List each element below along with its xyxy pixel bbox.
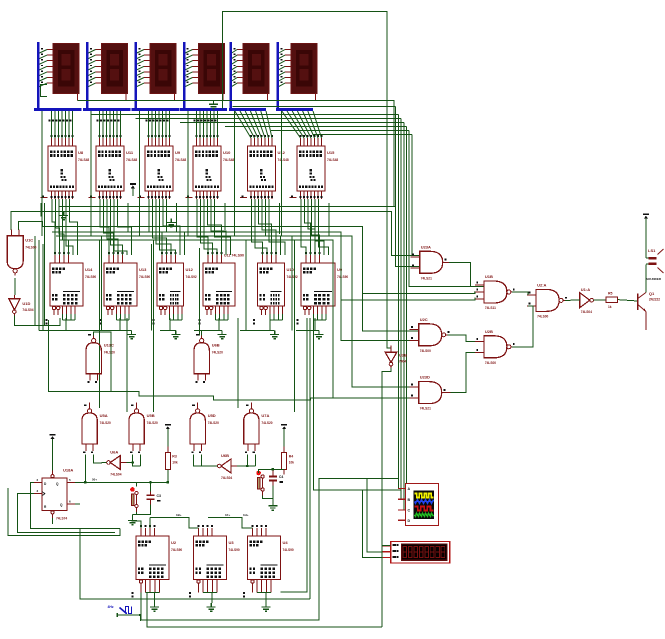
svg-text:U10: U10 [287,267,295,272]
svg-text:U2: U2 [171,540,177,545]
svg-text:74LS21: 74LS21 [420,407,431,411]
svg-text:A: A [408,487,411,491]
7-segment display DS1 [38,44,79,101]
ground (mid rail x=175.8) [171,331,180,339]
inverter U6A [101,450,126,477]
decoder IC U8 74LS48 [41,135,90,199]
nand gate U5D [190,402,219,453]
wire C3 bottom [137,504,151,514]
wires bus to decoder 4 [194,111,218,138]
svg-text:74LS00: 74LS00 [537,314,548,318]
svg-text:74LS74: 74LS74 [56,517,67,521]
bus for display DS6 [276,42,313,110]
svg-text:4Hz: 4Hz [108,605,114,609]
svg-text:74LS20: 74LS20 [147,421,158,425]
svg-text:U23A: U23A [421,244,431,249]
ground (bottom IC x=266) [262,603,271,611]
svg-text:U6B: U6B [221,453,229,458]
resistor R3 [165,447,178,475]
resistor R4 [282,447,295,475]
svg-text:R5: R5 [608,292,613,296]
nand gate U2B [475,329,516,365]
counter IC U13 74LS90 [100,252,151,324]
svg-text:U2B: U2B [399,352,407,357]
wire U18A preset to VCC [52,447,54,471]
transistor Q1 [638,265,660,331]
and gate U23D [410,375,451,411]
nand gate U2C [410,317,450,353]
svg-text:U9: U9 [175,150,181,155]
svg-text:74LS90: 74LS90 [171,548,182,552]
wires bottom rails [80,318,401,627]
decoder IC U11 74LS48 [89,135,138,199]
svg-text:U10: U10 [223,150,231,155]
svg-text:74LS20: 74LS20 [212,351,223,355]
svg-text:U13C: U13C [104,343,114,348]
ground (decoder 1) [59,212,68,220]
svg-text:D: D [408,519,411,523]
wires to LED matrix [363,368,391,627]
svg-text:74LS00: 74LS00 [25,246,36,250]
svg-text:74LS20: 74LS20 [208,421,219,425]
svg-text:U3: U3 [229,540,235,545]
wires decoders to counters [52,199,329,255]
wire top loop [223,11,391,352]
ground (button S2) [268,502,277,510]
wires mid rails [35,236,319,331]
svg-text:2N2222: 2N2222 [649,298,660,302]
wires U1C-U1D chain [14,278,60,326]
counter IC U12 74LS92 [153,252,197,324]
7-segment display DS6 [278,44,317,101]
decoder IC U12 74LS48 [240,135,289,199]
counter IC U10 74LS92 [253,252,298,324]
svg-text:74LS20: 74LS20 [104,351,115,355]
nand gate U5A [82,402,111,453]
svg-text:LS1: LS1 [648,248,656,253]
ground (mid rail x=319) [315,331,324,339]
svg-text:U23D: U23D [420,375,430,380]
svg-text:R4: R4 [289,455,294,459]
7-segment display DS5 [231,44,269,101]
power VCC (sounder) [643,214,649,229]
svg-text:U11 74LS90: U11 74LS90 [224,254,244,258]
bus for display DS2 [83,42,130,110]
svg-text:74LS90: 74LS90 [229,548,240,552]
svg-text:U6B: U6B [212,343,220,348]
wires R4 button C4 node [259,469,285,476]
wires lower nand inputs [84,454,274,616]
wires right gate interconnect [341,262,638,392]
flip-flop U18A [34,468,75,521]
wire C4 bottom [272,486,274,502]
wire display common cathodes [78,100,394,206]
ground (mid rail x=274.7) [270,331,279,339]
wire R3 to VCC [167,437,169,447]
svg-text:U5A: U5A [100,413,108,418]
wires decoder column verticals [41,111,329,236]
wires mid gate links [49,320,334,400]
bus for display DS5 [229,42,266,110]
nand gate U7A [244,402,273,453]
clock source (blue) [108,605,141,621]
inverter U1D [9,295,34,316]
nand gate U13C [86,332,115,383]
and gate U1B [475,274,516,310]
svg-text:U6A: U6A [110,450,118,455]
svg-text:R3: R3 [172,455,177,459]
svg-text:74LS90: 74LS90 [139,275,150,279]
svg-text:74LS04: 74LS04 [110,473,121,477]
svg-text:U11: U11 [126,150,134,155]
svg-text:1k: 1k [608,305,612,309]
svg-text:U4: U4 [283,540,289,545]
svg-text:1B+: 1B+ [176,513,182,517]
counter IC U3 74LS90 [189,525,240,597]
svg-text:B: B [408,498,411,502]
svg-text:U2B: U2B [485,329,493,334]
svg-text:74LS90: 74LS90 [283,548,294,552]
bus for display DS4 [180,42,228,110]
svg-text:U1C: U1C [25,238,33,243]
svg-text:74LS04: 74LS04 [221,476,232,480]
svg-text:74LS90: 74LS90 [85,275,96,279]
nand gate U13B [194,332,223,383]
button S2 [256,471,264,496]
svg-text:74LS20: 74LS20 [100,421,111,425]
svg-text:U7A: U7A [261,413,269,418]
svg-text:U1D: U1D [22,301,30,306]
7-segment display DS3 [136,44,176,101]
wire loop at display DS1 [41,85,48,97]
power VCC (U18A) [50,435,56,447]
svg-text:74LS21: 74LS21 [421,276,432,280]
power VCC (decoders) [130,184,136,196]
wires bus to decoder 5 [235,111,272,138]
decoder IC U10 74LS48 [186,135,235,199]
svg-text:74LS48: 74LS48 [175,158,186,162]
decoder IC U15 74LS48 [290,135,339,199]
wires long center verticals [127,318,310,599]
ground (mid rail x=222.1) [218,331,227,339]
svg-text:1H+: 1H+ [243,513,249,517]
sounder LS1 [646,229,664,281]
ground (bottom IC x=154.5) [150,603,159,611]
svg-text:74LS48: 74LS48 [327,158,338,162]
svg-text:U2C: U2C [420,317,428,322]
wires mid trunk horizontals [11,206,420,398]
wire R4 to VCC [283,437,285,447]
wires bottom IC clock rails [132,513,253,528]
inverter U19A [573,287,600,314]
capacitor C4 [269,470,284,486]
counter IC U9 74LS90 [297,252,349,324]
bus for display DS3 [131,42,179,110]
svg-text:10k: 10k [289,461,295,465]
7-segment display DS2 [87,44,127,101]
inverter U22B [385,345,407,368]
svg-text:C3: C3 [157,494,162,498]
wires bus to decoder 2 [97,111,121,138]
svg-text:U13: U13 [139,267,147,272]
svg-text:U8: U8 [78,150,84,155]
counter IC U14 74LS90 [46,252,97,324]
wires bus to decoder 1 [49,111,73,138]
nand gate U2A [527,282,568,318]
svg-text:SOUNDER: SOUNDER [646,277,662,281]
counter IC U2 74LS90 [132,525,183,597]
svg-text:74LS48: 74LS48 [126,158,137,162]
svg-text:74LS04: 74LS04 [581,310,592,314]
svg-text:U1B: U1B [485,274,493,279]
counter IC U4 74LS90 [243,525,294,597]
svg-text:C4: C4 [279,475,284,479]
7-segment display DS4 [184,44,224,101]
svg-text:U15: U15 [327,150,335,155]
svg-text:74LS00: 74LS00 [420,349,431,353]
bus for display DS1 [34,42,82,110]
LED matrix display [382,541,450,563]
svg-text:74LS11: 74LS11 [485,306,496,310]
power VCC (R3) [165,425,171,437]
wire bundle verticals right [396,106,484,520]
svg-text:U14: U14 [85,267,93,272]
and gate U23A [411,244,450,280]
wires bus to decoder 3 [146,111,170,138]
svg-text:74LS48: 74LS48 [278,158,289,162]
wires counters to rails [62,314,326,331]
ground (bottom IC x=211.2) [207,603,216,611]
power VCC (R4) [281,425,287,437]
svg-text:U18A: U18A [63,468,73,473]
ground (mid rail x=131.6) [127,331,136,339]
svg-text:U5B: U5B [147,413,155,418]
svg-text:Q1: Q1 [649,291,655,296]
nand gate U1C [7,230,36,276]
counter IC U11 74LS90 [199,252,244,324]
svg-text:74LS48: 74LS48 [223,158,234,162]
svg-text:10k: 10k [172,461,178,465]
wires gap verticals [45,221,295,412]
wire trunk segment-data lines [91,106,412,134]
svg-text:74LS20: 74LS20 [261,421,272,425]
decoder IC U9 74LS48 [138,135,187,199]
svg-text:74LS92: 74LS92 [186,275,197,279]
inverter U6B [212,453,237,480]
svg-text:50+: 50+ [92,478,97,482]
svg-text:U2:A: U2:A [537,282,546,287]
svg-text:1F+: 1F+ [225,513,231,517]
capacitor C3 [147,488,162,504]
svg-text:74LS04: 74LS04 [22,308,33,312]
wire button S2 [263,496,273,502]
oscilloscope [398,483,439,525]
svg-text:U1:A: U1:A [581,287,590,292]
wires bus to decoder 6 [282,111,322,138]
svg-text:74LS90: 74LS90 [337,275,348,279]
ground (display commons) [209,100,218,108]
svg-text:C: C [408,508,411,512]
ground (decoder 3) [167,219,176,227]
svg-text:7404: 7404 [399,359,406,363]
svg-text:U9: U9 [337,267,343,272]
svg-text:74LS48: 74LS48 [78,158,89,162]
wires flip-flop U18A nets [8,454,168,535]
nand gate U5B [129,402,158,453]
wire button S1 leads [133,482,137,516]
svg-text:U12: U12 [186,267,194,272]
button S1 [130,487,138,512]
svg-text:74LS00: 74LS00 [485,361,496,365]
svg-text:U5D: U5D [208,413,216,418]
resistor R5 [606,292,617,310]
ground (button S1) [128,517,137,525]
